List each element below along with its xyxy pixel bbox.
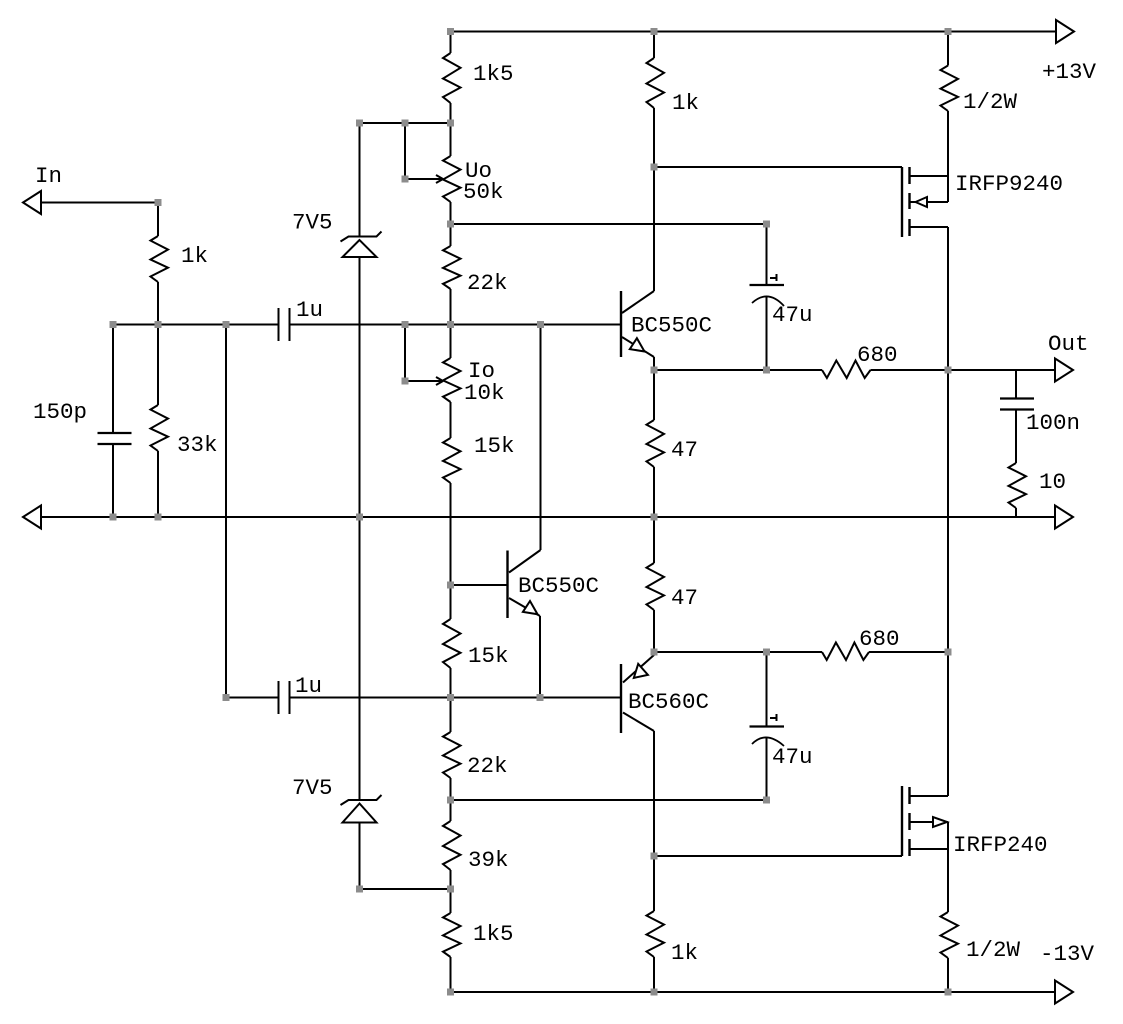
svg-text:BC560C: BC560C [628,689,709,715]
wire 0V mid rail [41,516,1055,518]
wire collector BC550C upper [653,167,655,291]
resistor 15k upper [443,433,515,619]
transistor U2 IRFP240 [902,786,1048,858]
wire collector BC560C down [653,731,655,911]
svg-text:1k: 1k [671,940,698,966]
transistor U1 IRFP9240 [902,167,1063,237]
connector arrow +13V [1042,20,1097,85]
wire gate IRFP240 [654,855,902,857]
resistor 1k5 lower [443,913,514,992]
capacitor C 1u upper [279,297,324,341]
capacitor 150p [33,325,132,518]
svg-text:100n: 100n [1026,410,1080,436]
resistor 47 lower [647,517,699,652]
capacitor 47u upper [750,224,813,370]
capacitor 47u lower [750,652,813,800]
svg-text:10: 10 [1039,469,1066,495]
svg-text:33k: 33k [177,432,218,458]
wire drain IRFP240 [947,652,949,796]
transistor Q2 BC550C lower [508,550,600,698]
wire base Q2 [451,584,508,586]
resistor 15k lower [443,619,509,732]
resistor 33k [151,325,218,518]
wire Uo wiper [405,123,443,183]
svg-text:50k: 50k [463,179,504,205]
svg-text:15k: 15k [468,643,509,669]
svg-text:47: 47 [671,437,698,463]
resistor 1/2W upper [941,32,1018,177]
svg-text:1k5: 1k5 [473,921,514,947]
svg-text:1/2W: 1/2W [963,89,1018,115]
svg-text:39k: 39k [468,847,509,873]
connector arrow -13V [1040,941,1095,1004]
svg-text:47u: 47u [772,744,813,770]
wire +13V top rail [451,31,1057,33]
svg-text:BC550C: BC550C [631,313,712,339]
svg-text:Out: Out [1048,331,1089,357]
wire drain IRFP9240 [947,227,949,370]
wire node y=224 [451,223,767,225]
svg-text:1k: 1k [672,90,699,116]
wire emitter node BC560C y=652 [654,651,822,653]
wire -13V bottom rail [451,991,1056,993]
connector arrow Out [1048,331,1089,382]
wire 680 to out [871,369,1056,371]
resistor 10 [1009,463,1067,517]
capacitor 100n [1000,370,1080,463]
svg-text:In: In [35,163,62,189]
zener diode 7V5 upper [292,123,382,517]
transistor Q3 BC560C [621,652,709,733]
svg-text:+13V: +13V [1042,59,1097,85]
svg-text:1k5: 1k5 [473,61,514,87]
wire base BC560C node y=697.5 [290,697,622,699]
svg-text:IRFP9240: IRFP9240 [955,171,1063,197]
svg-text:680: 680 [859,626,900,652]
resistor 22k lower [443,732,508,821]
svg-text:22k: 22k [467,270,508,296]
resistor 1k5 upper [443,32,514,157]
resistor 680 upper [822,342,898,378]
wire zener bottom y=889 [360,888,451,890]
connector arrow mid-right [1055,506,1073,529]
svg-text:-13V: -13V [1040,941,1095,967]
zener diode 7V5 lower [292,517,382,889]
resistor 1k input [151,203,209,325]
svg-text:15k: 15k [474,433,515,459]
capacitor C 1u lower [226,325,322,715]
svg-text:7V5: 7V5 [292,210,333,236]
svg-text:1/2W: 1/2W [966,937,1021,963]
wire input [41,202,158,204]
resistor 47 upper [647,370,699,517]
transistor Q1 BC550C upper [621,291,712,370]
wire output node upper y=370 [654,369,822,371]
resistor 1/2W lower [941,849,1021,992]
wire Io wiper [405,325,443,386]
wire 680 lower to mosfet [869,651,948,653]
resistor 39k [443,821,509,913]
wire x=540 from node A [540,325,542,551]
svg-text:7V5: 7V5 [292,775,333,801]
connector arrow mid-left [23,506,41,529]
svg-text:22k: 22k [467,753,508,779]
wire 1u to ladder [290,324,622,326]
wire gate IRFP9240 [654,166,902,168]
svg-text:680: 680 [857,342,898,368]
resistor 680 lower [822,626,900,660]
wire output column x=948 [947,370,949,652]
resistor 22k upper [443,246,508,358]
svg-text:47: 47 [671,585,698,611]
potentiometer Uo 50k [443,156,504,246]
resistor 1k lower right [647,911,699,992]
svg-text:BC550C: BC550C [518,573,599,599]
potentiometer Io 10k [443,358,505,438]
svg-text:150p: 150p [33,399,87,425]
svg-text:1u: 1u [296,297,323,323]
wire 47u lower to ladder y=800 [451,799,767,801]
connector arrow In [23,163,62,214]
svg-text:IRFP240: IRFP240 [953,832,1048,858]
svg-text:10k: 10k [464,380,505,406]
wire zener top y=123 [360,122,451,124]
wire input node y=324 [113,324,279,326]
svg-text:1k: 1k [181,243,208,269]
svg-text:47u: 47u [772,302,813,328]
svg-text:1u: 1u [295,673,322,699]
resistor 1k upper right [647,32,700,168]
